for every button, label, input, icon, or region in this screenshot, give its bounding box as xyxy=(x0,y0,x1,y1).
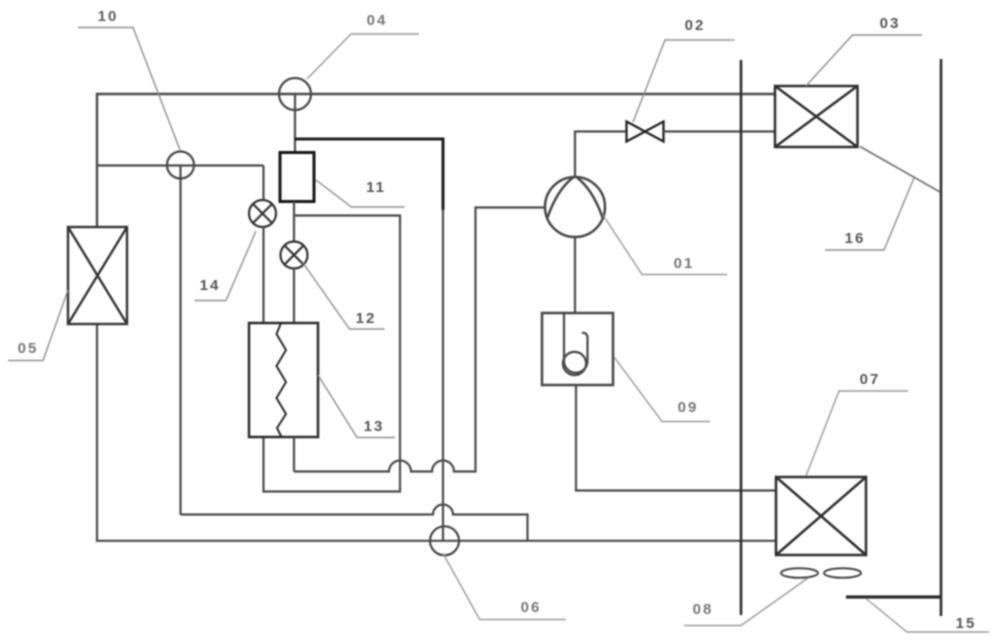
label 12 xyxy=(303,263,385,329)
wire accumulator 09 outlet to hx07 xyxy=(576,385,776,491)
label 06 xyxy=(443,554,566,620)
label 01 xyxy=(603,215,727,275)
node circle 10 xyxy=(167,152,194,179)
wire y166 from left vertical to valve 14 branch xyxy=(97,164,264,166)
svg-text:11: 11 xyxy=(366,179,386,196)
fan 08 xyxy=(781,568,861,578)
diagonal duct line from hx03 to wall xyxy=(860,147,940,193)
svg-text:03: 03 xyxy=(880,15,901,32)
wire C bottom main from hx05 to hx07 xyxy=(97,324,776,541)
label 10 xyxy=(78,8,180,150)
valve 14 xyxy=(249,200,276,227)
label 07 xyxy=(806,371,908,476)
heater 13 box with zigzag xyxy=(249,323,318,437)
wire valve 12 to heater 13 xyxy=(293,269,295,324)
wire valve 14 to heater 13 xyxy=(262,166,264,324)
svg-text:15: 15 xyxy=(956,615,977,632)
wire branch loop y215 x400 around heater left channel xyxy=(264,216,401,492)
svg-text:07: 07 xyxy=(860,371,881,388)
label 08 xyxy=(684,578,808,626)
label 14 xyxy=(195,231,257,301)
wire compressor discharge to accumulator 09 xyxy=(574,237,576,313)
svg-text:10: 10 xyxy=(98,8,119,25)
svg-text:12: 12 xyxy=(356,310,377,327)
label 15 xyxy=(866,599,989,633)
heat exchanger 07 xyxy=(776,477,866,555)
wall line 16 right vertical xyxy=(940,59,943,616)
svg-text:05: 05 xyxy=(18,340,39,357)
wire top main horizontal xyxy=(97,94,775,227)
svg-text:08: 08 xyxy=(693,601,714,618)
wire x444 vertical down to node 06 xyxy=(442,210,444,541)
wire valve 02 to hx03 xyxy=(664,130,776,132)
label 03 xyxy=(806,15,922,86)
wire compressor suction top to valve 02 xyxy=(575,132,627,178)
node circle 06 xyxy=(430,526,459,555)
svg-text:06: 06 xyxy=(521,599,542,616)
label 09 xyxy=(614,357,710,422)
label 02 xyxy=(633,17,734,122)
wire B lower loop with hump over x444 xyxy=(181,505,528,541)
wire from node 04 down to component 11 xyxy=(294,94,296,152)
accumulator 09 box xyxy=(542,313,613,385)
label 16 xyxy=(825,178,914,250)
heat exchanger 03 xyxy=(775,86,858,147)
svg-text:13: 13 xyxy=(364,418,385,435)
valve 02 bowtie xyxy=(627,122,664,142)
accumulator 09 J-tube xyxy=(564,314,588,373)
floor line 15 bottom right xyxy=(846,595,941,598)
wire dark branch from x295 to x444 top xyxy=(295,139,444,210)
node circle 04 xyxy=(279,78,311,110)
svg-text:02: 02 xyxy=(685,17,706,34)
compressor 01 xyxy=(545,177,605,237)
wire component 11 to valve 12 xyxy=(293,202,295,242)
svg-text:01: 01 xyxy=(674,255,695,272)
svg-text:16: 16 xyxy=(845,230,866,247)
label 13 xyxy=(318,375,395,438)
valve 12 xyxy=(281,242,308,269)
svg-text:14: 14 xyxy=(200,277,221,294)
label 05 xyxy=(8,290,68,361)
wire heater right channel down xyxy=(293,437,295,472)
label 04 xyxy=(307,12,419,79)
component 11 rectangle xyxy=(280,153,314,202)
svg-text:04: 04 xyxy=(367,12,388,29)
accumulator 09 float ball xyxy=(563,352,586,375)
partition line inner vertical xyxy=(740,60,743,615)
wire from node 10 down to wire B corner xyxy=(179,166,181,515)
wire A suction line with humps over x400 and x444 xyxy=(294,208,545,472)
label 11 xyxy=(316,179,405,207)
heater 13 zigzag divider xyxy=(277,323,287,437)
svg-text:09: 09 xyxy=(678,399,699,416)
heat exchanger 05 xyxy=(68,227,127,324)
